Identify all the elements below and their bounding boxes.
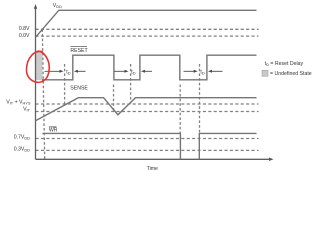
svg-text:VIT: VIT xyxy=(23,107,31,113)
svg-text:0.0V: 0.0V xyxy=(19,33,30,39)
svg-text:RESET: RESET xyxy=(70,48,88,54)
svg-text:VDD: VDD xyxy=(53,3,62,9)
svg-text:tD: tD xyxy=(200,69,204,75)
svg-text:0.7VDD: 0.7VDD xyxy=(14,135,30,141)
svg-text:SENSE: SENSE xyxy=(70,85,88,91)
svg-text:WR: WR xyxy=(49,127,58,133)
svg-text:tD: tD xyxy=(66,69,70,75)
svg-text:= Undefined State: = Undefined State xyxy=(270,71,312,77)
svg-text:0.8V: 0.8V xyxy=(19,26,30,32)
svg-text:0.3VDD: 0.3VDD xyxy=(14,147,30,153)
svg-text:tD: tD xyxy=(131,69,135,75)
svg-text:VIT + VHYS: VIT + VHYS xyxy=(6,100,31,106)
svg-text:tD = Reset Delay: tD = Reset Delay xyxy=(265,61,304,67)
svg-text:Time: Time xyxy=(147,166,158,172)
